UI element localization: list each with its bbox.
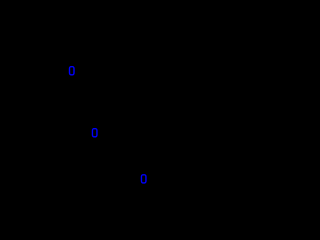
atom O1 (oxygen label, upper left) — [70, 67, 75, 75]
atom O2 (oxygen label, middle) — [92, 129, 97, 137]
atom O3 (oxygen label, lower right) — [141, 175, 146, 183]
